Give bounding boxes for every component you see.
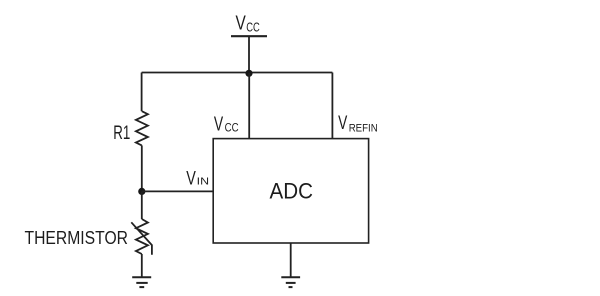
svg-text:CC: CC (246, 21, 260, 35)
VCC pin label at ADC (214, 113, 239, 135)
wire VCC stem (248, 36, 250, 73)
power symbol VCC bar (231, 35, 267, 37)
VIN pin label (186, 168, 209, 189)
svg-text:ADC: ADC (270, 179, 314, 204)
svg-text:REFIN: REFIN (349, 122, 378, 134)
ground (ADC) (281, 277, 300, 287)
wire top horizontal rail (142, 72, 333, 74)
wire VCC pin drop (248, 73, 250, 139)
op block ADC box (213, 139, 368, 243)
wire thermistor to ground (141, 254, 143, 277)
node junction VIN (138, 188, 145, 195)
svg-text:CC: CC (225, 122, 239, 134)
svg-text:V: V (236, 13, 247, 35)
wire ADC to ground (290, 243, 292, 277)
wire VIN horizontal to ADC (142, 190, 213, 192)
wire VIN node to thermistor (141, 191, 143, 219)
svg-text:V: V (186, 168, 196, 189)
wire R1 bottom to VIN node (141, 145, 143, 191)
ground (left) (132, 277, 151, 287)
wire VREFIN pin drop (331, 73, 333, 139)
thermistor RT (136, 219, 148, 254)
svg-text:V: V (214, 113, 224, 135)
node junction at VCC rail (245, 70, 252, 77)
svg-text:R1: R1 (113, 123, 130, 144)
VREFIN pin label at ADC (338, 113, 378, 135)
svg-text:V: V (338, 113, 347, 134)
svg-text:THERMISTOR: THERMISTOR (25, 228, 129, 248)
wire left vertical to R1 (141, 73, 143, 112)
resistor R1 (136, 111, 148, 145)
svg-text:IN: IN (197, 176, 209, 187)
thermistor diagonal stroke (131, 222, 152, 255)
VCC label (top) (236, 13, 260, 35)
